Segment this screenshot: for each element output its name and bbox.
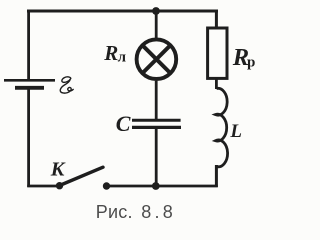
wire inductor to bottom corner xyxy=(215,165,218,187)
wire middle branch top (to lamp) xyxy=(155,11,158,38)
switch K left contact dot xyxy=(56,182,63,189)
svg-text:K: K xyxy=(50,159,66,181)
lamp Rl cross stroke 1 xyxy=(143,45,171,73)
wire lamp to capacitor xyxy=(155,81,158,119)
wire bottom right (switch to right corner) xyxy=(107,185,218,188)
capacitor C top plate xyxy=(132,119,181,122)
wire capacitor to bottom junction xyxy=(155,129,158,186)
svg-text:L: L xyxy=(229,121,242,142)
svg-text:Rр: Rр xyxy=(232,44,255,71)
battery E long plate xyxy=(4,79,55,82)
wire bottom left (corner to switch) xyxy=(27,185,59,188)
node junction bottom xyxy=(152,182,160,190)
lamp Rl circle xyxy=(137,39,177,79)
wire top horizontal xyxy=(27,10,218,13)
wire left vertical upper (to battery) xyxy=(27,10,30,80)
inductor L coil xyxy=(215,88,227,166)
label E (script ℰ) xyxy=(60,77,73,93)
capacitor C bottom plate xyxy=(132,126,181,129)
switch K right contact dot xyxy=(103,182,110,189)
wire resistor to inductor xyxy=(215,78,218,89)
caption xyxy=(0,201,261,203)
svg-text:C: C xyxy=(116,111,131,136)
wire right branch top stub xyxy=(215,10,218,28)
wire left vertical lower (battery to bottom) xyxy=(27,90,30,188)
battery E short plate xyxy=(15,86,44,90)
switch K lever xyxy=(60,167,104,185)
resistor Rp rectangle xyxy=(208,28,227,78)
svg-text:Rл: Rл xyxy=(103,41,126,66)
node junction top xyxy=(152,7,160,15)
lamp Rl cross stroke 2 xyxy=(143,45,171,73)
